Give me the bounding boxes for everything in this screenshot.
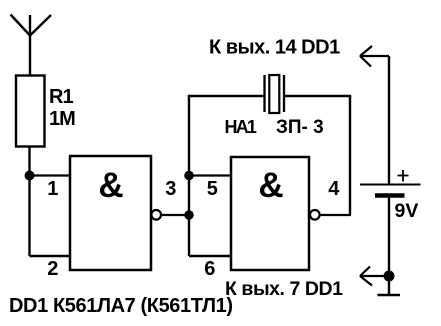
NAND gate DD1.2 bbox=[231, 157, 309, 270]
ground bbox=[378, 294, 401, 297]
resistor R1 bbox=[16, 76, 45, 147]
svg-text:9V: 9V bbox=[395, 200, 419, 222]
svg-text:К вых. 7 DD1: К вых. 7 DD1 bbox=[225, 278, 343, 300]
svg-text:&: & bbox=[98, 166, 123, 205]
svg-text:R1: R1 bbox=[49, 86, 73, 108]
svg-text:&: & bbox=[258, 166, 283, 205]
svg-text:К вых. 14 DD1: К вых. 14 DD1 bbox=[209, 37, 340, 59]
wire battery bottom lead bbox=[388, 197, 390, 294]
svg-text:3: 3 bbox=[165, 178, 176, 200]
wire R1 bottom to node A bbox=[28, 147, 30, 176]
svg-text:6: 6 bbox=[204, 258, 215, 280]
battery GB1 positive plate bbox=[360, 184, 421, 186]
node B junction dot bbox=[184, 171, 194, 181]
wire pin 4 to right bus bbox=[320, 214, 351, 216]
piezo buzzer HA1 bbox=[265, 75, 285, 113]
NAND gate DD1.1 bbox=[70, 156, 151, 270]
wire node B to pin 5 bbox=[189, 174, 231, 176]
wire node A to pin 1 bbox=[30, 174, 71, 176]
battery GB1 negative plate bbox=[375, 193, 405, 197]
arrow to pin 7 DD1 bbox=[360, 267, 389, 286]
label plus bbox=[398, 170, 409, 182]
svg-text:1М: 1М bbox=[49, 108, 75, 130]
wire battery top lead bbox=[388, 56, 390, 184]
wire pin 3 to node C bbox=[161, 214, 189, 216]
node C junction dot bbox=[184, 210, 194, 220]
svg-text:ЗП- 3: ЗП- 3 bbox=[276, 117, 324, 138]
output bubble DD1.2 bbox=[310, 210, 320, 220]
svg-text:DD1 К561ЛА7 (К561ТЛ1): DD1 К561ЛА7 (К561ТЛ1) bbox=[9, 295, 233, 317]
svg-text:2: 2 bbox=[47, 258, 58, 280]
node D junction dot bbox=[384, 271, 395, 282]
svg-text:НА1: НА1 bbox=[225, 117, 257, 137]
antenna WA1 bbox=[11, 15, 52, 76]
output bubble DD1.1 bbox=[151, 210, 161, 220]
wire top loop left bbox=[188, 95, 265, 97]
svg-text:1: 1 bbox=[47, 178, 58, 200]
arrow to pin 14 DD1 bbox=[360, 46, 389, 67]
wire node A down bbox=[28, 176, 30, 257]
svg-text:5: 5 bbox=[207, 178, 218, 200]
wire top loop right bbox=[284, 95, 351, 97]
svg-text:4: 4 bbox=[328, 178, 340, 200]
wire to pin 6 bbox=[189, 255, 231, 257]
vertical bus wire bbox=[188, 96, 190, 256]
wire right loop vertical bbox=[349, 96, 351, 215]
node A junction dot bbox=[25, 171, 35, 181]
wire to pin 2 bbox=[30, 255, 71, 257]
